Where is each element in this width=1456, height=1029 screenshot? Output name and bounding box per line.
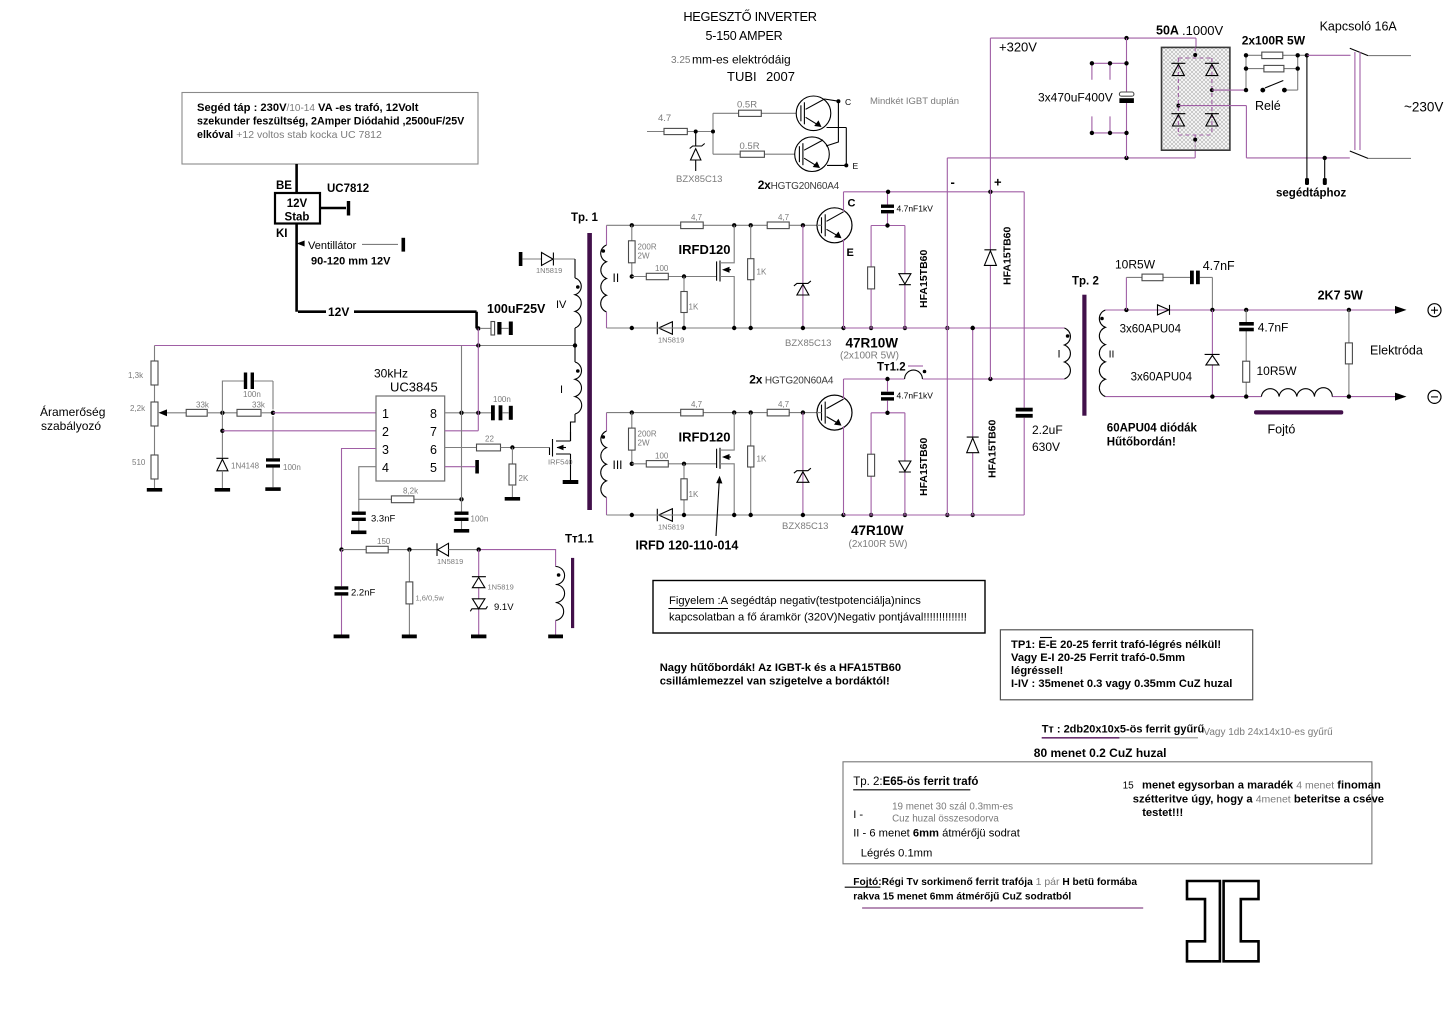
svg-text:50A: 50A <box>1156 24 1179 38</box>
svg-text:IRFD120: IRFD120 <box>679 242 731 257</box>
svg-text:Fojtó:Régi Tv sorkimenő ferrit: Fojtó:Régi Tv sorkimenő ferrit trafója 1… <box>853 876 1137 888</box>
svg-text:200R: 200R <box>638 430 657 439</box>
svg-text:100n: 100n <box>283 463 301 472</box>
svg-text:5: 5 <box>430 461 437 475</box>
svg-text:IRFD120: IRFD120 <box>679 429 731 444</box>
svg-text:rakva 15 menet 6mm átmér: rakva 15 menet 6mm átmérőjű CuZ sodratbó… <box>853 892 1071 903</box>
svg-text:TP1: E-E 20-25 ferrit trafó-lé: TP1: E-E 20-25 ferrit trafó-légrés nélkü… <box>1011 639 1221 651</box>
svg-text:IRFD 120-110-014: IRFD 120-110-014 <box>636 539 739 553</box>
svg-text:C: C <box>845 97 851 107</box>
svg-text:1N5819: 1N5819 <box>536 266 562 275</box>
svg-text:1K: 1K <box>757 455 767 464</box>
svg-text:80 menet 0.2 CuZ huzal: 80 menet 0.2 CuZ huzal <box>1034 746 1167 760</box>
svg-text:150: 150 <box>377 537 391 546</box>
svg-text:100n: 100n <box>493 395 511 404</box>
svg-text:mm-es elektródáig: mm-es elektródáig <box>692 53 791 67</box>
svg-text:8: 8 <box>430 407 437 421</box>
svg-text:+: + <box>994 175 1002 190</box>
svg-text:Segéd táp : 230V/10-14 VA -es: Segéd táp : 230V/10-14 VA -es trafó, 12V… <box>197 102 419 114</box>
svg-text:-: - <box>951 175 955 190</box>
svg-text:I: I <box>560 384 563 396</box>
svg-text:.1000V: .1000V <box>1182 23 1224 38</box>
svg-text:HFA15TB60: HFA15TB60 <box>918 249 930 308</box>
svg-text:HFA15TB60: HFA15TB60 <box>987 419 999 478</box>
svg-text:1K: 1K <box>689 303 699 312</box>
svg-text:2xHGTG20N60A4: 2xHGTG20N60A4 <box>758 178 840 192</box>
svg-text:csillámlemezzel van szigetelve: csillámlemezzel van szigetelve a bordákt… <box>660 676 890 688</box>
svg-text:TUBI: TUBI <box>727 69 757 84</box>
svg-text:+320V: +320V <box>999 40 1037 55</box>
svg-text:30kHz: 30kHz <box>374 367 408 381</box>
svg-text:Légrés 0.1mm: Légrés 0.1mm <box>861 848 933 860</box>
svg-text:Tp. 1: Tp. 1 <box>571 212 598 224</box>
svg-text:200R: 200R <box>638 242 657 251</box>
svg-text:9.1V: 9.1V <box>494 602 514 613</box>
svg-text:~230V: ~230V <box>1404 100 1443 115</box>
svg-text:33k: 33k <box>196 401 210 410</box>
svg-text:I: I <box>1058 349 1061 361</box>
svg-text:Ventillátor: Ventillátor <box>308 240 357 252</box>
svg-text:E: E <box>847 247 854 259</box>
svg-text:4.7nF: 4.7nF <box>1258 321 1289 335</box>
svg-text:kapcsolatban a fő áramkör (320: kapcsolatban a fő áramkör (320V)Negativ … <box>669 612 967 624</box>
svg-text:IRF540: IRF540 <box>548 458 573 467</box>
svg-text:12V: 12V <box>287 198 308 210</box>
svg-text:4,7: 4,7 <box>691 213 703 222</box>
svg-text:4.7nF: 4.7nF <box>1203 259 1235 273</box>
svg-text:100: 100 <box>655 451 669 460</box>
svg-text:2: 2 <box>382 425 389 439</box>
svg-text:90-120 mm 12V: 90-120 mm 12V <box>311 256 391 268</box>
svg-text:1N5819: 1N5819 <box>437 557 463 566</box>
svg-text:BZX85C13: BZX85C13 <box>782 521 828 532</box>
svg-text:3.3nF: 3.3nF <box>371 514 395 525</box>
svg-text:Relé: Relé <box>1255 99 1281 113</box>
svg-text:E: E <box>853 161 859 171</box>
svg-text:Mindkét IGBT duplán: Mindkét IGBT duplán <box>870 96 959 107</box>
svg-text:100uF25V: 100uF25V <box>487 302 546 316</box>
svg-text:menet egysorban a maradék 4 me: menet egysorban a maradék 4 menet finoma… <box>1142 780 1381 792</box>
svg-text:4.7nF1kV: 4.7nF1kV <box>897 391 934 401</box>
svg-text:2.2nF: 2.2nF <box>351 588 375 599</box>
svg-text:3x470uF400V: 3x470uF400V <box>1038 91 1113 105</box>
svg-text:12V: 12V <box>328 305 349 319</box>
svg-text:Figyelem :A segédtáp negativ(t: Figyelem :A segédtáp negativ(testpotenci… <box>669 595 921 607</box>
svg-text:2007: 2007 <box>766 69 795 84</box>
svg-text:IV: IV <box>556 299 567 311</box>
svg-text:C: C <box>848 198 856 210</box>
svg-text:100: 100 <box>655 264 669 273</box>
svg-text:1N4148: 1N4148 <box>231 462 260 471</box>
svg-text:47R10W: 47R10W <box>846 336 899 351</box>
svg-text:630V: 630V <box>1032 440 1060 454</box>
svg-text:1N5819: 1N5819 <box>658 523 684 532</box>
svg-text:15: 15 <box>1123 781 1135 792</box>
svg-text:1K: 1K <box>689 490 699 499</box>
svg-text:0.5R: 0.5R <box>740 141 760 152</box>
svg-text:I-IV : 35menet 0.3 vagy 0.35mm: I-IV : 35menet 0.3 vagy 0.35mm CuZ huzal <box>1011 678 1232 690</box>
svg-text:2W: 2W <box>638 439 650 448</box>
svg-text:(2x100R 5W): (2x100R 5W) <box>849 539 908 550</box>
svg-text:4,7: 4,7 <box>778 400 790 409</box>
svg-text:4,7: 4,7 <box>778 213 790 222</box>
svg-text:4.7nF1kV: 4.7nF1kV <box>897 203 934 213</box>
svg-text:Tт : 2db20x10x5-ös ferrit gyű: Tт : 2db20x10x5-ös ferrit gyűrű <box>1042 724 1205 736</box>
svg-text:19 menet 30 szál 0.3mm-es: 19 menet 30 szál 0.3mm-es <box>892 802 1013 813</box>
svg-text:3: 3 <box>382 443 389 457</box>
svg-text:UC3845: UC3845 <box>390 380 438 395</box>
svg-text:HFA15TB60: HFA15TB60 <box>918 437 930 496</box>
svg-text:2.2uF: 2.2uF <box>1032 423 1063 437</box>
svg-text:Vagy 1db 24x14x10-es gyűrű: Vagy 1db 24x14x10-es gyűrű <box>1203 727 1333 738</box>
svg-text:47R10W: 47R10W <box>851 523 904 538</box>
svg-text:(2x100R 5W): (2x100R 5W) <box>840 351 899 362</box>
svg-text:KI: KI <box>276 228 288 240</box>
svg-text:1,6/0,5w: 1,6/0,5w <box>416 594 445 603</box>
svg-text:60APU04 diódák: 60APU04 diódák <box>1107 423 1198 435</box>
svg-text:2x100R 5W: 2x100R 5W <box>1242 34 1306 48</box>
svg-text:szabályozó: szabályozó <box>41 419 101 433</box>
svg-text:8,2k: 8,2k <box>403 487 419 496</box>
svg-text:II: II <box>613 271 620 285</box>
svg-text:100n: 100n <box>243 390 261 399</box>
svg-text:szekunder feszültség, 2Amper D: szekunder feszültség, 2Amper Diódahid ,2… <box>197 116 465 128</box>
svg-text:II: II <box>1109 349 1115 361</box>
svg-text:Fojtó: Fojtó <box>1268 423 1296 437</box>
svg-text:2K: 2K <box>519 474 529 483</box>
svg-text:Tp. 2: Tp. 2 <box>1072 276 1099 288</box>
svg-text:HFA15TB60: HFA15TB60 <box>1002 226 1014 285</box>
svg-text:Tт1.2: Tт1.2 <box>877 362 906 374</box>
svg-text:3x60APU04: 3x60APU04 <box>1131 372 1193 384</box>
svg-text:I -: I - <box>853 809 863 821</box>
svg-text:segédtáphoz: segédtáphoz <box>1276 188 1347 200</box>
svg-text:6: 6 <box>430 443 437 457</box>
svg-text:10R5W: 10R5W <box>1257 364 1298 378</box>
svg-text:UC7812: UC7812 <box>327 183 369 195</box>
svg-text:7: 7 <box>430 425 437 439</box>
svg-text:BZX85C13: BZX85C13 <box>785 338 831 349</box>
svg-text:1,3k: 1,3k <box>128 371 144 380</box>
svg-text:4,7: 4,7 <box>691 400 703 409</box>
svg-text:Nagy hűtőbordák! Az IGBT-k és: Nagy hűtőbordák! Az IGBT-k és a HFA15TB6… <box>660 662 901 674</box>
svg-text:III: III <box>613 458 623 472</box>
svg-text:szétteritve úgy, hogy a 4menet: szétteritve úgy, hogy a 4menet beteritse… <box>1133 794 1384 806</box>
svg-text:Vagy E-I 20-25 Ferrit trafó-: Vagy E-I 20-25 Ferrit trafó-0.5mm <box>1011 652 1185 664</box>
svg-text:BE: BE <box>276 180 292 192</box>
svg-text:elkóval +12 voltos stab kocka: elkóval +12 voltos stab kocka UC 7812 <box>197 129 382 141</box>
svg-text:3.25: 3.25 <box>671 55 691 66</box>
svg-text:2x HGTG20N60A4: 2x HGTG20N60A4 <box>749 373 834 387</box>
svg-text:2K7 5W: 2K7 5W <box>1318 289 1363 303</box>
svg-text:10R5W: 10R5W <box>1115 258 1156 272</box>
svg-text:0.5R: 0.5R <box>737 100 757 111</box>
svg-text:1K: 1K <box>757 267 767 276</box>
svg-text:33k: 33k <box>252 401 266 410</box>
svg-text:Stab: Stab <box>285 212 310 224</box>
svg-text:4: 4 <box>382 461 389 475</box>
svg-text:Tт1.1: Tт1.1 <box>565 534 594 546</box>
svg-text:1N5819: 1N5819 <box>488 583 514 592</box>
svg-text:légréssel!: légréssel! <box>1011 665 1063 677</box>
svg-text:100n: 100n <box>471 515 489 524</box>
svg-text:5-150 AMPER: 5-150 AMPER <box>705 29 782 43</box>
svg-text:Áramerőség: Áramerőség <box>40 404 105 419</box>
svg-text:22: 22 <box>485 435 494 444</box>
svg-text:Kapcsoló 16A: Kapcsoló 16A <box>1320 20 1398 34</box>
svg-text:Elektróda: Elektróda <box>1370 344 1423 358</box>
svg-text:Cuz huzal összesodorva: Cuz huzal összesodorva <box>892 814 999 825</box>
svg-text:510: 510 <box>132 458 146 467</box>
svg-text:1: 1 <box>382 407 389 421</box>
svg-text:testet!!!: testet!!! <box>1142 807 1183 819</box>
svg-text:4.7: 4.7 <box>658 113 671 124</box>
svg-text:Tp. 2:E65-ös ferrit trafó: Tp. 2:E65-ös ferrit trafó <box>853 776 978 788</box>
svg-text:BZX85C13: BZX85C13 <box>676 174 722 185</box>
svg-text:Hűtőbordán!: Hűtőbordán! <box>1107 437 1176 449</box>
svg-text:2,2k: 2,2k <box>130 404 146 413</box>
svg-text:2W: 2W <box>638 251 650 260</box>
svg-text:HEGESZTŐ INVERTER: HEGESZTŐ INVERTER <box>683 9 816 24</box>
svg-text:1N5819: 1N5819 <box>658 336 684 345</box>
svg-text:3x60APU04: 3x60APU04 <box>1120 324 1182 336</box>
svg-text:II - 6 menet 6mm átmérőj: II - 6 menet 6mm átmérőjü sodrat <box>853 828 1021 840</box>
